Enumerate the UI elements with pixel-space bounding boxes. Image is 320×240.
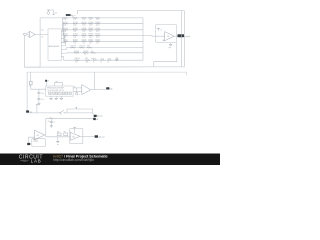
svg-text:10k: 10k	[84, 34, 87, 36]
wire pin7	[61, 52, 67, 54]
svg-text:1.0k: 1.0k	[96, 19, 99, 21]
svg-text:20k: 20k	[75, 22, 78, 24]
wire	[73, 90, 82, 92]
wire	[25, 35, 41, 67]
ground	[50, 96, 53, 100]
svg-text:R33: R33	[85, 58, 88, 60]
net label DAC	[66, 14, 76, 17]
jumper J2	[100, 59, 104, 64]
ladder row 2 resistors	[63, 22, 143, 27]
wire	[154, 43, 177, 67]
svg-text:20k: 20k	[75, 61, 78, 63]
source V2	[32, 139, 46, 147]
op-amp OA4	[34, 130, 44, 140]
svg-text:20k: 20k	[75, 34, 78, 36]
svg-text:1.0k: 1.0k	[96, 25, 99, 27]
wire	[65, 112, 93, 114]
switch SW1	[59, 110, 64, 115]
wire	[35, 33, 48, 35]
svg-text:out_buf: out_buf	[184, 35, 190, 38]
svg-text:1u: 1u	[53, 121, 55, 123]
wire	[45, 82, 47, 86]
audio amp IC U3	[46, 86, 73, 96]
svg-text:1.0k: 1.0k	[96, 31, 99, 33]
wire	[38, 100, 40, 104]
svg-text:R31: R31	[91, 51, 94, 53]
capacitor C1	[37, 92, 44, 95]
ladder row 7 resistors	[67, 51, 143, 56]
svg-text:2.0k: 2.0k	[89, 43, 92, 45]
power flag V+	[47, 10, 50, 15]
wire pin2	[61, 24, 63, 35]
wire	[30, 72, 32, 81]
wire bus	[142, 18, 144, 60]
net label SP-	[26, 110, 33, 113]
svg-text:10k: 10k	[84, 22, 87, 24]
voltage source V1	[23, 33, 27, 35]
wire	[50, 122, 52, 125]
svg-text:10k: 10k	[98, 34, 101, 36]
svg-text:1.0k: 1.0k	[63, 25, 66, 27]
power flag	[73, 127, 76, 133]
net label AMPIN	[93, 118, 98, 121]
svg-text:2.0k: 2.0k	[89, 25, 92, 27]
svg-text:2.0k: 2.0k	[89, 37, 92, 39]
svg-text:2.0k: 2.0k	[73, 37, 76, 39]
svg-text:10k: 10k	[84, 39, 87, 41]
ground	[37, 103, 40, 105]
op-amp OA5	[70, 132, 80, 140]
resistor R32	[64, 131, 68, 135]
svg-text:10k: 10k	[84, 28, 87, 30]
svg-text:2.0k: 2.0k	[89, 31, 92, 33]
net label SPK	[93, 113, 103, 118]
ground	[60, 96, 63, 100]
pin label	[41, 36, 43, 38]
svg-text:20k: 20k	[91, 34, 94, 36]
svg-text:1.0k: 1.0k	[82, 43, 85, 45]
wire pin5	[61, 41, 65, 46]
jumper J3	[107, 59, 111, 64]
wire	[180, 11, 182, 67]
svg-text:1.0k: 1.0k	[82, 37, 85, 39]
ladder row 1 resistors	[40, 17, 143, 21]
svg-text:1.0k: 1.0k	[82, 25, 85, 27]
svg-text:10k: 10k	[65, 34, 68, 36]
pin label	[41, 29, 44, 31]
capacitor C3	[48, 121, 55, 123]
ladder row 6 resistors	[66, 46, 143, 49]
footer bar	[0, 154, 220, 166]
wire	[48, 10, 53, 15]
op-amp OA3	[82, 85, 91, 95]
svg-text:0.1u: 0.1u	[41, 99, 44, 101]
wire pin8	[61, 57, 63, 61]
ground	[56, 137, 59, 145]
wire	[45, 119, 47, 135]
svg-text:1.0k: 1.0k	[96, 43, 99, 45]
svg-text:1.0k: 1.0k	[82, 19, 85, 21]
capacitor C2	[37, 99, 44, 102]
svg-text:j1: j1	[92, 61, 94, 63]
wire	[50, 119, 52, 122]
node	[75, 88, 80, 96]
svg-text:10k: 10k	[98, 22, 101, 24]
wire	[31, 85, 46, 89]
ground	[55, 96, 58, 100]
svg-text:20k: 20k	[91, 39, 94, 41]
ground	[50, 126, 53, 128]
svg-text:20k: 20k	[91, 28, 94, 30]
ladder rail resistors	[64, 58, 144, 63]
svg-text:2.0k: 2.0k	[73, 25, 76, 27]
svg-text:+V: +V	[160, 29, 162, 31]
svg-text:R28: R28	[87, 46, 90, 48]
svg-text:10k: 10k	[98, 28, 101, 30]
svg-text:2.2k: 2.2k	[29, 85, 32, 87]
wire	[45, 135, 71, 137]
svg-text:+5V: +5V	[54, 13, 57, 15]
microcontroller U1	[48, 29, 61, 61]
svg-text:20k: 20k	[91, 22, 94, 24]
net label jp	[55, 81, 58, 83]
net label SP+	[106, 87, 113, 90]
svg-text:LAB: LAB	[31, 159, 42, 164]
svg-text:20k: 20k	[82, 46, 85, 48]
op-amp module U2	[156, 24, 177, 42]
svg-text:jp1: jp1	[55, 81, 58, 83]
wire	[38, 89, 40, 92]
wire	[29, 137, 35, 143]
svg-text:1.0k: 1.0k	[63, 19, 66, 21]
wire	[39, 18, 41, 67]
footer title	[53, 155, 108, 163]
wire	[46, 118, 93, 120]
wire	[27, 112, 60, 114]
svg-text:10k: 10k	[65, 39, 68, 41]
svg-text:j2: j2	[100, 61, 102, 63]
net flag	[36, 104, 38, 113]
svg-text:10k: 10k	[65, 28, 68, 30]
svg-text:20k: 20k	[73, 46, 76, 48]
svg-text:10k: 10k	[65, 22, 68, 24]
resistor R31	[57, 131, 61, 135]
net label IN	[27, 143, 30, 145]
svg-text:2.0k: 2.0k	[73, 43, 76, 45]
wire	[27, 33, 30, 35]
svg-text:http://circuitlab.com/c4zk9j6x: http://circuitlab.com/c4zk9j6x	[53, 158, 94, 162]
svg-text:10k: 10k	[86, 61, 89, 63]
wire pin4	[61, 36, 64, 43]
svg-text:v5: v5	[47, 81, 49, 83]
net label OUT1	[178, 34, 191, 38]
wire	[91, 89, 107, 91]
svg-text:in2: in2	[96, 119, 98, 121]
svg-text:2.0k: 2.0k	[89, 19, 92, 21]
svg-text:2.0k: 2.0k	[73, 31, 76, 33]
net label SPKR	[95, 135, 105, 138]
wire	[26, 72, 28, 113]
svg-text:1.0k: 1.0k	[82, 31, 85, 33]
svg-text:S1: S1	[60, 113, 62, 115]
wire pin1	[61, 18, 62, 32]
wire	[70, 129, 83, 144]
svg-text:20k: 20k	[77, 51, 80, 53]
svg-text:R4: R4	[57, 131, 59, 133]
wire	[67, 109, 93, 113]
svg-text:C6: C6	[48, 121, 50, 123]
net tag +5V	[53, 13, 58, 15]
power flag	[157, 28, 162, 31]
svg-text:1.0k: 1.0k	[63, 43, 66, 45]
wire bus	[25, 66, 154, 68]
op-amp OA2	[163, 32, 174, 41]
ladder row 5 resistors	[63, 39, 143, 44]
CircuitLab logo	[19, 154, 43, 163]
resistor R30	[29, 81, 32, 87]
svg-text:386: 386	[72, 137, 75, 139]
wire	[55, 83, 63, 86]
svg-text:20k: 20k	[75, 28, 78, 30]
svg-text:gnd: gnd	[169, 47, 171, 49]
wire	[143, 35, 165, 38]
svg-text:adc: adc	[41, 29, 44, 31]
wire	[72, 16, 74, 18]
svg-text:1.0k: 1.0k	[63, 31, 66, 33]
ladder row 3 resistors	[63, 28, 143, 33]
wire	[27, 72, 187, 75]
svg-text:20k: 20k	[75, 39, 78, 41]
svg-text:10k: 10k	[98, 39, 101, 41]
svg-text:20k: 20k	[86, 51, 89, 53]
svg-text:1.0k: 1.0k	[63, 37, 66, 39]
svg-text:2.0k: 2.0k	[73, 19, 76, 21]
svg-text:10u: 10u	[41, 93, 44, 95]
wire	[70, 136, 83, 143]
wire	[154, 11, 185, 67]
wire	[77, 11, 184, 14]
svg-text:V2 sine: V2 sine	[33, 140, 38, 142]
net label V5	[45, 80, 49, 83]
net flag	[75, 107, 77, 109]
ladder row 4 resistors	[63, 34, 143, 39]
svg-text:j3: j3	[107, 61, 109, 63]
op-amp OA1	[28, 31, 36, 37]
ground flag	[115, 57, 118, 60]
svg-text:spk+: spk+	[110, 88, 113, 90]
jumper J1	[92, 59, 96, 64]
wire pin6	[61, 48, 66, 50]
wire	[80, 135, 95, 137]
wire	[174, 35, 179, 37]
wire	[38, 93, 40, 98]
wire pin3	[61, 30, 64, 39]
svg-text:20k: 20k	[77, 58, 80, 60]
svg-text:1.0k: 1.0k	[96, 37, 99, 39]
svg-text:R5: R5	[64, 131, 66, 133]
net label small	[49, 117, 53, 119]
ground flag	[169, 43, 173, 49]
wire	[94, 72, 96, 90]
wire	[73, 86, 82, 88]
